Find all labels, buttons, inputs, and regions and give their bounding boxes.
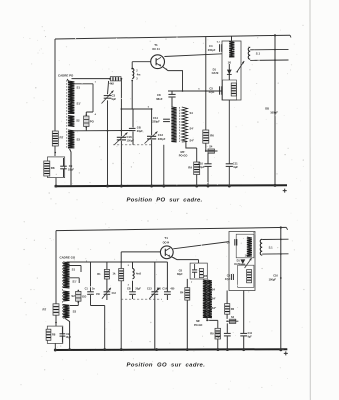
svg-text:100µF: 100µF	[270, 111, 278, 115]
svg-text:R4: R4	[180, 291, 184, 295]
svg-text:R7: R7	[60, 136, 64, 140]
svg-text:S4': S4'	[212, 297, 216, 301]
svg-text:S1: S1	[72, 267, 76, 271]
svg-text:R9: R9	[188, 166, 192, 170]
svg-text:R1: R1	[97, 272, 101, 276]
svg-text:9µF: 9µF	[233, 165, 238, 169]
svg-text:54µF: 54µF	[215, 335, 221, 338]
svg-text:S.1: S.1	[269, 245, 274, 249]
svg-text:DB: DB	[265, 107, 269, 111]
svg-text:MF: MF	[196, 319, 200, 323]
svg-text:C14: C14	[153, 116, 158, 120]
svg-text:S3: S3	[77, 138, 81, 142]
svg-text:T1: T1	[154, 43, 158, 47]
svg-text:S4": S4"	[190, 139, 195, 143]
svg-text:47µF: 47µF	[225, 278, 231, 281]
svg-text:20µF: 20µF	[135, 288, 141, 291]
svg-text:330pF: 330pF	[158, 137, 166, 141]
svg-text:C13: C13	[147, 287, 152, 290]
svg-text:68nF: 68nF	[156, 97, 163, 101]
svg-text:330: 330	[157, 287, 162, 290]
svg-text:R7: R7	[42, 308, 46, 312]
svg-text:C3: C3	[112, 93, 116, 97]
svg-text:C4: C4	[209, 44, 213, 48]
svg-text:PO-GO: PO-GO	[194, 324, 202, 327]
svg-text:S1': S1'	[77, 102, 81, 106]
svg-text:C5: C5	[209, 87, 213, 91]
svg-text:OC 44: OC 44	[152, 47, 160, 51]
svg-text:100µF: 100µF	[269, 277, 277, 281]
svg-text:S4: S4	[209, 145, 213, 149]
svg-text:S.1: S.1	[256, 52, 261, 56]
svg-text:C16: C16	[273, 275, 278, 278]
svg-text:20µF: 20µF	[137, 129, 143, 133]
svg-text:S1: S1	[77, 86, 81, 90]
svg-text:S2: S2	[76, 119, 80, 123]
svg-text:220pF: 220pF	[152, 120, 160, 124]
svg-text:C10: C10	[198, 161, 203, 165]
svg-text:S4": S4"	[212, 306, 217, 310]
svg-text:54µF: 54µF	[199, 165, 205, 169]
svg-text:4m5: 4m5	[136, 273, 142, 276]
svg-text:47µF: 47µF	[209, 90, 215, 94]
svg-text:450: 450	[170, 287, 175, 290]
svg-text:S4: S4	[190, 111, 194, 115]
svg-text:C8: C8	[157, 93, 161, 97]
svg-text:R8: R8	[52, 333, 56, 337]
svg-text:9pF: 9pF	[112, 97, 117, 101]
svg-text:GB: GB	[137, 126, 141, 130]
svg-text:OA79: OA79	[212, 71, 219, 75]
svg-text:R8: R8	[51, 166, 55, 170]
svg-text:T1: T1	[164, 236, 168, 240]
svg-text:Position GO sur cadre.: Position GO sur cadre.	[127, 362, 206, 368]
svg-text:200pF: 200pF	[208, 48, 216, 52]
svg-text:S4': S4'	[190, 127, 194, 131]
svg-text:S4: S4	[212, 287, 216, 291]
svg-text:R6: R6	[210, 134, 214, 138]
svg-text:4k5: 4k5	[109, 82, 114, 86]
svg-text:S1': S1'	[72, 279, 76, 283]
svg-text:9µF: 9µF	[248, 335, 253, 338]
svg-text:C14: C14	[162, 287, 167, 290]
svg-text:S3: S3	[73, 310, 77, 314]
svg-text:PO-GO: PO-GO	[179, 153, 188, 157]
svg-text:CADRE PO: CADRE PO	[58, 74, 74, 78]
svg-text:C8: C8	[179, 268, 183, 272]
svg-text:CADRE GO: CADRE GO	[60, 255, 76, 259]
svg-text:68pF: 68pF	[177, 273, 183, 276]
svg-text:S2: S2	[71, 294, 75, 298]
svg-text:R9: R9	[210, 332, 214, 336]
svg-text:OC44: OC44	[163, 241, 170, 244]
svg-text:10µF: 10µF	[66, 336, 72, 339]
svg-text:D1: D1	[213, 68, 217, 72]
svg-text:C13: C13	[158, 133, 164, 137]
svg-text:C13: C13	[112, 293, 117, 295]
svg-text:C16: C16	[127, 135, 133, 139]
svg-text:Position PO sur cadre.: Position PO sur cadre.	[127, 197, 203, 203]
svg-text:C11: C11	[233, 161, 238, 165]
svg-text:CB: CB	[127, 288, 131, 291]
svg-text:R6: R6	[231, 307, 235, 311]
